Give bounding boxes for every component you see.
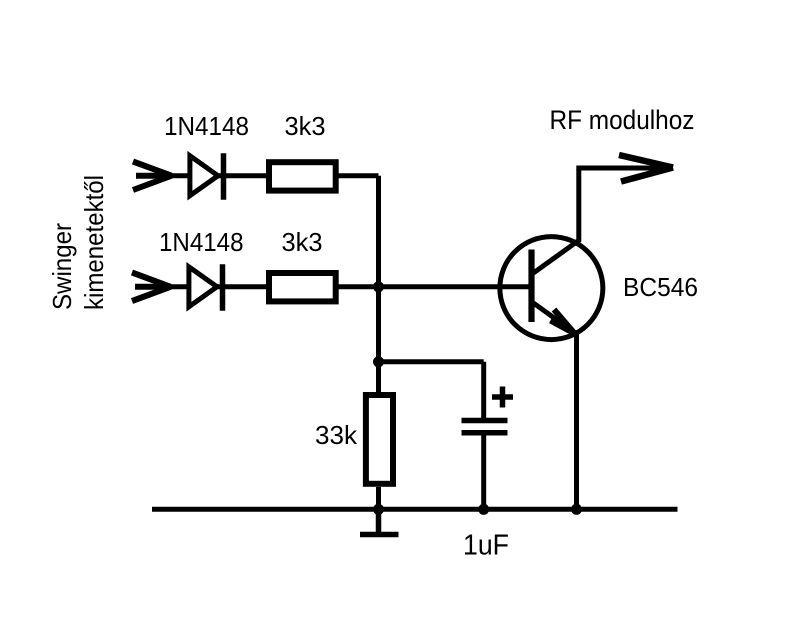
wire resistor bottom xyxy=(376,487,381,509)
wire cap bottom lead xyxy=(481,433,486,510)
svg-text:kimenetektől: kimenetektől xyxy=(79,175,109,310)
collector diagonal xyxy=(532,240,580,275)
wire row2 xyxy=(171,284,266,289)
emitter arrowhead xyxy=(551,310,575,334)
wire row1 xyxy=(172,173,267,178)
svg-text:3k3: 3k3 xyxy=(282,227,323,257)
wire collector up and out xyxy=(579,168,666,241)
svg-text:Swinger: Swinger xyxy=(47,223,77,310)
diode D1 1N4148 xyxy=(190,153,224,200)
wire cap branch horizontal xyxy=(379,359,484,364)
wire emitter down xyxy=(574,334,579,509)
resistor R1 3k3 xyxy=(269,162,336,190)
wire row2 to transistor base xyxy=(336,284,530,289)
ground symbol xyxy=(360,509,399,534)
output arrow RF xyxy=(619,155,673,182)
wire cap top lead xyxy=(481,362,486,421)
transistor Q1 BC546 xyxy=(500,237,603,340)
node rail-33k xyxy=(373,504,384,515)
wire vertical bus xyxy=(376,176,381,392)
svg-text:33k: 33k xyxy=(315,420,358,450)
resistor R3 33k xyxy=(366,395,393,484)
ground rail xyxy=(152,507,678,512)
svg-text:1N4148: 1N4148 xyxy=(159,227,244,257)
wire row1 to bus xyxy=(338,173,379,178)
node rail-cap xyxy=(478,504,489,515)
capacitor C1 1uF xyxy=(462,421,508,433)
resistor R2 3k3 xyxy=(269,273,336,301)
input arrow 2 xyxy=(132,273,171,302)
emitter diagonal xyxy=(532,302,577,334)
svg-text:3k3: 3k3 xyxy=(285,111,326,141)
node junction row2 xyxy=(373,281,384,292)
base bar xyxy=(528,250,534,323)
svg-text:1N4148: 1N4148 xyxy=(164,111,249,141)
svg-text:RF modulhoz: RF modulhoz xyxy=(550,105,695,135)
svg-text:1uF: 1uF xyxy=(463,529,509,561)
input arrow 1 xyxy=(133,162,172,191)
plus sign xyxy=(492,387,513,408)
diode D2 1N4148 xyxy=(189,264,223,311)
svg-text:BC546: BC546 xyxy=(623,272,698,302)
node rail-emitter xyxy=(571,504,582,515)
node junction cap branch xyxy=(373,356,384,367)
